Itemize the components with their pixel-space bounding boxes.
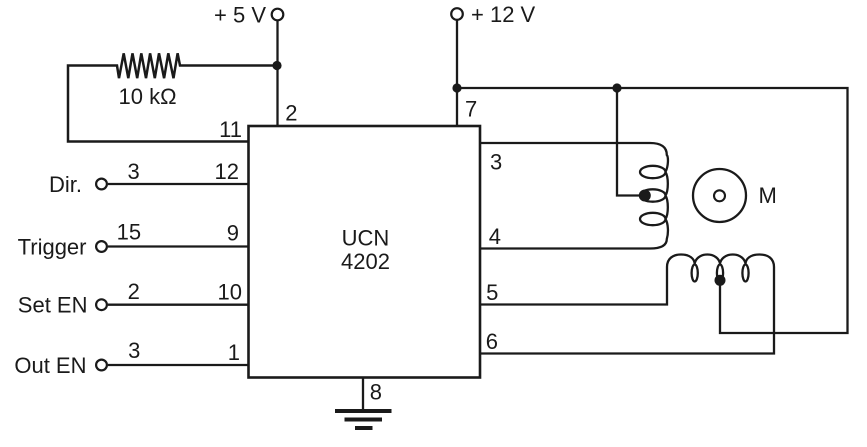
svg-text:Out EN: Out EN (14, 353, 86, 378)
svg-text:2: 2 (128, 279, 140, 304)
svg-text:4: 4 (489, 224, 501, 249)
svg-text:10 kΩ: 10 kΩ (118, 84, 176, 109)
svg-text:Set EN: Set EN (18, 293, 88, 318)
svg-text:11: 11 (219, 117, 242, 142)
svg-text:2: 2 (285, 101, 297, 126)
svg-text:4202: 4202 (341, 249, 390, 274)
svg-text:6: 6 (486, 329, 498, 354)
svg-text:UCN: UCN (342, 226, 390, 251)
svg-text:8: 8 (370, 379, 382, 404)
svg-text:3: 3 (127, 159, 139, 184)
svg-text:15: 15 (117, 220, 141, 245)
svg-text:Dir.: Dir. (49, 172, 82, 197)
svg-text:3: 3 (490, 150, 502, 175)
svg-text:Trigger: Trigger (18, 234, 87, 259)
svg-text:M: M (759, 183, 777, 208)
svg-text:+ 12 V: + 12 V (471, 2, 536, 27)
svg-text:1: 1 (228, 340, 240, 365)
svg-text:9: 9 (227, 221, 239, 246)
svg-text:7: 7 (465, 97, 477, 122)
svg-text:3: 3 (128, 338, 140, 363)
svg-text:10: 10 (218, 279, 242, 304)
svg-text:+ 5 V: + 5 V (214, 3, 266, 28)
svg-text:12: 12 (215, 159, 239, 184)
svg-text:5: 5 (486, 280, 498, 305)
